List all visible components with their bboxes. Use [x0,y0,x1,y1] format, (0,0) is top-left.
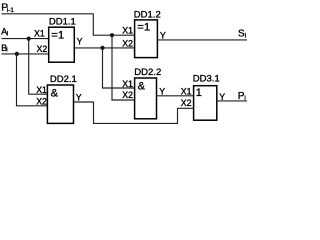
wire DD1.1 Y branch down to DD2.2 X1 [103,48,135,88]
svg-text:X1: X1 [36,85,47,95]
svg-text:=1: =1 [137,22,150,34]
XOR gate DD1.1 [49,17,76,63]
svg-text:X2: X2 [122,90,133,100]
wire DD2.1 Y down and along bottom to DD3.1 X2 [74,102,194,123]
wire DD3.1 Y to Pi output [217,100,247,102]
svg-text:DD2.1: DD2.1 [50,74,77,85]
node junction on Bi [15,52,19,56]
wire DD1.2 Y to Si output [157,39,247,41]
svg-text:X2: X2 [37,44,48,54]
svg-text:X1: X1 [181,86,192,96]
wire Pi-1 branch down to DD2.2 X2 [112,35,135,100]
svg-text:X2: X2 [181,98,192,108]
wire Ai branch down to DD2.1 X1 [29,39,48,95]
svg-text:X1: X1 [122,79,133,89]
svg-text:X1: X1 [34,29,45,39]
wire DD1.1 Y to DD1.2 X2 [74,47,134,49]
svg-text:Y: Y [159,86,165,96]
svg-text:X1: X1 [122,25,133,35]
svg-text:Y: Y [160,30,166,40]
OR gate DD3.1 [193,74,220,121]
svg-text:Y: Y [76,92,82,102]
node junction on Pi-1 at X1 line of DD1.2 [110,33,114,37]
node junction on DD1.1 output [100,46,104,50]
net label Bi [1,43,7,54]
svg-text:1: 1 [196,87,202,99]
wire Bi branch down to DD2.1 X2 [17,54,48,106]
svg-text:i: i [7,31,8,37]
net label Pi-1 [1,3,14,14]
svg-text:i-1: i-1 [7,7,14,14]
AND gate DD2.2 [134,67,161,119]
svg-text:i: i [6,48,7,54]
svg-text:DD1.1: DD1.1 [49,17,76,28]
svg-text:X2: X2 [122,38,133,48]
svg-text:DD1.2: DD1.2 [134,10,161,21]
net label Ai [1,27,8,38]
net label Si [238,29,246,40]
svg-text:X2: X2 [36,96,47,106]
svg-text:i: i [244,95,245,102]
svg-text:DD2.2: DD2.2 [134,67,161,78]
svg-text:DD3.1: DD3.1 [193,74,220,85]
node junction on Ai [27,37,31,41]
svg-text:=1: =1 [51,29,64,41]
svg-text:i: i [245,32,246,39]
AND gate DD2.1 [47,74,76,124]
XOR gate DD1.2 [134,10,161,58]
svg-text:&: & [51,87,59,99]
net label Pi [238,91,246,102]
wire DD2.2 Y to DD3.1 X1 [157,95,194,97]
svg-text:Y: Y [77,36,83,46]
svg-text:Y: Y [219,92,225,102]
wire Ai to DD1.1 X1 [2,38,49,40]
wire Bi to DD1.1 X2 [2,53,49,55]
wire Pi-1 horizontal top, corner down, into DD1.2 X1 [2,14,135,35]
svg-text:&: & [138,80,146,92]
